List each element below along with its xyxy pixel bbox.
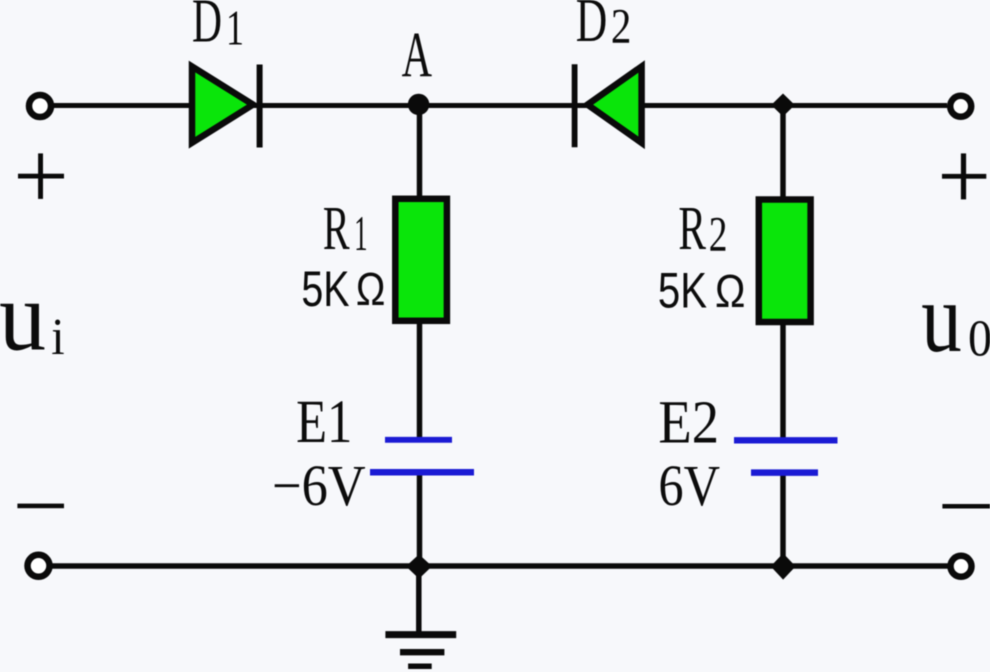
svg-text:Ω: Ω xyxy=(356,263,386,315)
svg-text:i: i xyxy=(51,309,64,366)
svg-text:E2: E2 xyxy=(658,390,719,457)
svg-text:2: 2 xyxy=(611,0,632,53)
svg-text:Ω: Ω xyxy=(715,265,745,317)
svg-text:1: 1 xyxy=(226,0,244,56)
svg-text:5K: 5K xyxy=(658,263,707,319)
svg-text:2: 2 xyxy=(709,206,728,262)
svg-text:D: D xyxy=(576,0,608,55)
svg-text:6V: 6V xyxy=(658,453,720,518)
svg-text:0: 0 xyxy=(968,310,990,367)
svg-text:1: 1 xyxy=(354,205,368,261)
svg-text:E1: E1 xyxy=(296,389,352,456)
svg-text:R: R xyxy=(678,195,706,263)
svg-text:R: R xyxy=(323,195,350,263)
svg-text:D: D xyxy=(192,0,222,56)
svg-text:5K: 5K xyxy=(301,261,349,317)
svg-text:u: u xyxy=(921,262,962,373)
svg-text:u: u xyxy=(0,261,46,372)
svg-text:−6V: −6V xyxy=(272,453,366,518)
svg-text:A: A xyxy=(402,19,432,91)
